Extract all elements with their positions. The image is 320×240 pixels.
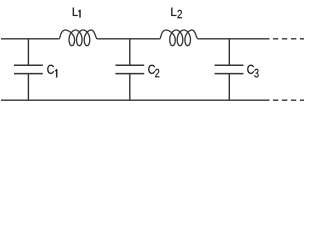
capacitor C1 top plate <box>14 64 43 66</box>
capacitor C1 bottom plate <box>14 73 43 75</box>
label L1 <box>73 8 81 18</box>
wire C2 top stub <box>129 39 131 66</box>
wire C2 bottom stub <box>129 74 131 101</box>
wire bottom rail dashed continuation <box>273 99 305 101</box>
capacitor C3 top plate <box>215 64 244 66</box>
capacitor C3 <box>215 39 244 100</box>
capacitor C2 bottom plate <box>115 73 144 75</box>
wire C1 top stub <box>27 39 29 66</box>
wire top rail dashed continuation <box>273 38 305 40</box>
capacitor C3 bottom plate <box>215 73 244 75</box>
label C3 <box>247 65 258 78</box>
inductor L2 <box>159 30 200 46</box>
wire top rail right segment <box>199 38 269 40</box>
capacitor C2 <box>115 39 144 100</box>
wire C1 bottom stub <box>27 74 29 101</box>
wire C3 top stub <box>228 39 230 66</box>
wire C3 bottom stub <box>228 74 230 101</box>
capacitor C2 top plate <box>115 64 144 66</box>
wire top rail middle segment <box>99 38 159 40</box>
wire top rail left segment <box>1 38 58 40</box>
label C2 <box>148 65 159 78</box>
inductor L1 <box>58 30 98 46</box>
label C1 <box>47 65 57 78</box>
label L2 <box>171 8 182 19</box>
wire bottom rail <box>1 99 270 101</box>
capacitor C1 <box>14 39 43 100</box>
